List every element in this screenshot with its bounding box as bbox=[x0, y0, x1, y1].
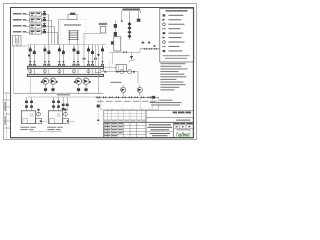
boiler B2 side group bbox=[63, 109, 75, 124]
make-up riser with valve diamonds bbox=[128, 11, 132, 40]
water meter unit label bbox=[111, 82, 122, 83]
mid distribution pipe bbox=[110, 41, 162, 53]
makeup junction dot bbox=[28, 54, 30, 66]
legend row 4 bbox=[163, 28, 181, 30]
logo cell divider bbox=[189, 128, 191, 137]
stage/sheet texts bbox=[174, 123, 193, 127]
pipe size label bbox=[57, 94, 70, 95]
riser pair 3 with balancing valves bbox=[58, 45, 65, 67]
legend row 3 bbox=[163, 23, 185, 26]
legend footnote bbox=[163, 55, 190, 59]
title strip lines bbox=[146, 110, 193, 122]
company row bbox=[177, 129, 191, 130]
boiler supply pipe bbox=[28, 96, 104, 98]
return collector bus bbox=[28, 74, 104, 76]
boiler B2 risers with valves bbox=[52, 97, 60, 111]
secondary pump drops bbox=[29, 69, 93, 75]
legend row 2 bbox=[162, 19, 181, 21]
boiler B1 risers with valves bbox=[25, 97, 33, 111]
booster pump 1 bbox=[121, 85, 126, 97]
make-up left leg bbox=[121, 11, 123, 22]
supply line row 1: label, meter box, control valve bbox=[13, 11, 49, 16]
supply line row 4: label, meter box, control valve bbox=[13, 29, 58, 34]
cold water inlet riser bbox=[95, 45, 101, 94]
title block names bbox=[104, 123, 123, 136]
legend row 8 bbox=[163, 46, 180, 48]
bypass riser pair bbox=[62, 97, 69, 111]
revision table header text bbox=[104, 119, 145, 122]
riser pair 2 with balancing valves bbox=[43, 45, 50, 67]
legend title bbox=[166, 10, 188, 11]
lower service pipe bbox=[100, 97, 159, 110]
title block main frame bbox=[104, 122, 194, 137]
heat network label bbox=[64, 24, 81, 25]
heat network inlet with air separator bbox=[59, 13, 78, 45]
valve tag texts bbox=[97, 101, 157, 102]
dashed drain line bbox=[109, 63, 111, 72]
boiler B2 label bbox=[47, 127, 63, 130]
tank inlet valve bbox=[111, 41, 114, 64]
strip small text bbox=[176, 119, 191, 121]
boiler drain pipe bbox=[30, 131, 62, 133]
collector verticals from supply rows bbox=[49, 14, 58, 44]
membrane tank box bbox=[114, 37, 121, 52]
left margin stamp cells bbox=[3, 93, 10, 138]
inner drawing frame bbox=[11, 8, 194, 138]
make-up unit label with underline bbox=[122, 9, 141, 14]
make-up branch valve bbox=[137, 11, 141, 22]
dotted control line bbox=[28, 91, 104, 93]
cold water main with shut-off valves bbox=[96, 96, 159, 109]
supply collector bus bbox=[28, 66, 104, 68]
water meter line with gauges bbox=[101, 70, 138, 84]
safety valve cluster bbox=[129, 52, 136, 61]
main circulation pump group 1 bbox=[41, 77, 58, 94]
bus end caps bbox=[28, 69, 104, 72]
plate heat exchanger (ladder) bbox=[68, 30, 78, 44]
water meter box bbox=[99, 64, 127, 71]
legend row 6 bbox=[162, 36, 181, 38]
notes list bbox=[160, 63, 187, 90]
left return pipe bbox=[13, 46, 15, 94]
title text middle bbox=[146, 124, 174, 136]
revision table bbox=[104, 110, 146, 122]
green company logo bbox=[176, 132, 189, 138]
main circulation pump group 2 bbox=[74, 77, 91, 94]
riser pair 5 with balancing valves bbox=[87, 45, 94, 67]
booster pump 2 bbox=[137, 85, 142, 97]
end riser single bbox=[101, 45, 104, 67]
riser pair 1 with balancing valves bbox=[29, 45, 36, 67]
drawing number bbox=[173, 112, 191, 114]
distribution header line bbox=[28, 44, 107, 46]
stage/sheet cells bbox=[174, 122, 194, 128]
outer page border bbox=[4, 4, 197, 140]
inner frame overdraw bbox=[11, 8, 194, 138]
left make-up cluster bbox=[114, 21, 117, 37]
supply line row 3: label, meter box, control valve bbox=[13, 23, 55, 28]
legend row 7 bbox=[163, 41, 185, 44]
centered note bbox=[150, 100, 182, 106]
expansion vessel coil bbox=[13, 36, 29, 55]
boiler return pipe bbox=[14, 93, 104, 95]
riser pair 4 with balancing valves bbox=[73, 45, 80, 67]
boiler B2 bbox=[48, 111, 62, 124]
control cabinet box bbox=[83, 23, 108, 67]
supply line row 2: label, meter box, control valve bbox=[13, 17, 52, 22]
bus2 left drop bbox=[29, 77, 31, 94]
legend row 9 bbox=[163, 50, 183, 52]
boiler B1 side group bbox=[36, 109, 48, 124]
title block left grid bbox=[104, 122, 146, 137]
legend row 1 bbox=[163, 14, 184, 16]
heat-exchanger boundary box (dashed) bbox=[61, 19, 87, 44]
boiler B1 label bbox=[20, 127, 36, 130]
legend row 5 bbox=[163, 32, 184, 34]
legend box bbox=[160, 8, 194, 62]
gas supply drop bbox=[97, 97, 100, 126]
boiler B1 bbox=[21, 111, 35, 124]
